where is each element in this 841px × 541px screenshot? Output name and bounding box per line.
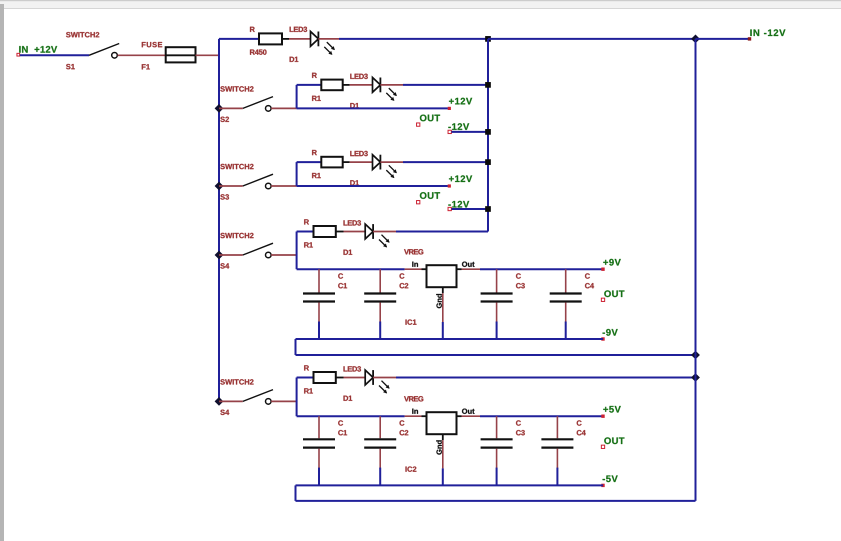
LED D1 (LED3)	[344, 366, 390, 401]
LED D1 (LED3)	[344, 220, 390, 255]
switch S5 (SWITCH2)	[219, 379, 273, 415]
junction	[485, 129, 491, 135]
fuse F1	[142, 42, 196, 69]
capacitor C4	[550, 269, 594, 339]
wire	[451, 208, 488, 210]
junction	[485, 159, 491, 165]
pin +12V OUT	[448, 175, 472, 187]
junction	[485, 82, 491, 88]
junction node S5	[215, 397, 224, 406]
wire	[295, 339, 297, 355]
pin -12V OUT	[448, 201, 469, 211]
wire ground rail	[296, 484, 604, 486]
wire	[271, 107, 297, 109]
wire regulator input rail	[297, 415, 427, 417]
junction	[691, 35, 700, 44]
pin +12V OUT	[448, 98, 472, 110]
wire	[297, 232, 314, 270]
LED D1 (LED3)	[350, 151, 397, 186]
junction node S2	[215, 104, 224, 113]
wire	[380, 84, 488, 86]
junction	[691, 373, 700, 382]
pin -9V OUT	[601, 329, 617, 341]
switch S1	[66, 32, 119, 69]
capacitor C3	[481, 269, 525, 339]
wire ground rail	[296, 338, 604, 340]
wire +12V left bus	[218, 39, 220, 402]
wire -12V right bus	[695, 39, 697, 501]
resistor R1	[312, 150, 372, 178]
pin IN +12V	[17, 46, 57, 56]
wire	[20, 54, 89, 56]
pin OUT	[417, 115, 441, 127]
wire	[297, 185, 448, 187]
pin OUT	[417, 192, 441, 204]
capacitor C2	[364, 416, 408, 485]
wire regulator output rail	[457, 268, 604, 270]
resistor R (R450)	[250, 27, 310, 55]
capacitor C1	[303, 269, 347, 339]
capacitor C2	[364, 269, 408, 339]
pin -12V OUT	[448, 123, 469, 133]
voltage regulator IC1 (VREG)	[404, 249, 474, 339]
wire	[271, 185, 297, 187]
junction	[691, 351, 700, 360]
pin IN -12V	[748, 29, 786, 40]
junction	[485, 206, 491, 212]
wire	[271, 254, 297, 256]
wire regulator output rail	[457, 415, 604, 417]
capacitor C1	[303, 416, 347, 485]
voltage regulator IC2 (VREG)	[404, 396, 474, 485]
wire	[295, 485, 297, 501]
LED D1 (LED3)	[350, 74, 397, 109]
wire	[271, 400, 297, 402]
switch S2 (SWITCH2)	[219, 86, 273, 122]
wire	[196, 54, 220, 56]
wire	[696, 38, 749, 40]
wire -12V return bus	[487, 39, 489, 232]
junction node S4	[215, 251, 224, 260]
wire	[373, 231, 488, 233]
wire	[373, 377, 695, 379]
wire	[297, 162, 322, 186]
resistor R1	[304, 365, 365, 393]
wire	[297, 107, 448, 109]
junction node S3	[215, 182, 224, 191]
resistor R1	[312, 73, 372, 101]
wire	[380, 161, 488, 163]
pin +9V OUT	[601, 259, 621, 271]
capacitor C3	[481, 416, 525, 485]
wire	[297, 85, 322, 109]
wire	[219, 38, 259, 40]
pin +5V OUT	[601, 406, 621, 418]
LED D1 (LED3)	[290, 27, 335, 62]
wire	[118, 54, 166, 56]
resistor R1	[304, 219, 365, 247]
junction	[485, 36, 491, 42]
capacitor C4	[541, 416, 585, 485]
wire regulator input rail	[297, 268, 427, 270]
wire return rail	[296, 500, 696, 502]
wire	[297, 378, 314, 417]
pin OUT	[601, 290, 624, 301]
switch S4 (SWITCH2)	[219, 233, 273, 269]
wire return rail	[296, 354, 696, 356]
wire	[451, 131, 488, 133]
pin OUT	[601, 437, 624, 448]
wire	[488, 38, 696, 40]
wire	[318, 38, 488, 40]
pin -5V OUT	[601, 475, 617, 487]
switch S3 (SWITCH2)	[219, 164, 273, 200]
